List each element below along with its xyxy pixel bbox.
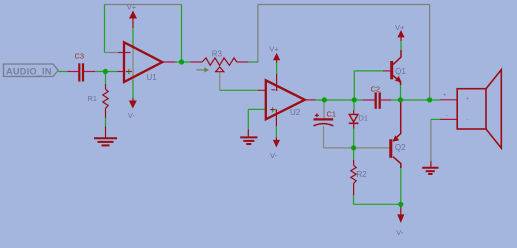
- svg-text:C1: C1: [327, 110, 337, 119]
- svg-text:+: +: [466, 96, 469, 102]
- svg-text:U2: U2: [290, 108, 301, 117]
- svg-text:R2: R2: [357, 170, 368, 179]
- svg-text:V-: V-: [396, 228, 404, 237]
- svg-text:V+: V+: [127, 3, 137, 12]
- svg-text:V+: V+: [395, 23, 405, 32]
- svg-text:C2: C2: [371, 84, 381, 93]
- svg-text:+: +: [443, 93, 446, 99]
- svg-text:C3: C3: [75, 52, 85, 61]
- svg-text:R3: R3: [212, 50, 223, 59]
- svg-text:V+: V+: [269, 45, 279, 54]
- svg-text:Q2: Q2: [395, 143, 406, 152]
- svg-text:V-: V-: [270, 151, 278, 160]
- svg-text:Q1: Q1: [395, 67, 406, 76]
- svg-text:R1: R1: [87, 94, 97, 103]
- svg-text:AUDIO_IN: AUDIO_IN: [6, 66, 52, 76]
- svg-text:D1: D1: [359, 114, 369, 123]
- svg-text:-: -: [467, 117, 469, 123]
- svg-text:U1: U1: [147, 73, 158, 82]
- svg-text:-: -: [446, 113, 448, 119]
- svg-text:V-: V-: [128, 111, 136, 120]
